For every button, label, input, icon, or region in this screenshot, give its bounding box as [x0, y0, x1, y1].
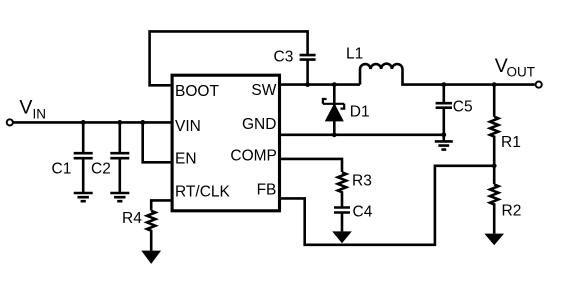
svg-text:C2: C2: [91, 160, 111, 177]
svg-text:RT/CLK: RT/CLK: [175, 183, 231, 200]
svg-text:COMP: COMP: [230, 148, 277, 165]
svg-text:C4: C4: [353, 204, 373, 221]
svg-text:L1: L1: [346, 46, 363, 63]
svg-text:OUT: OUT: [507, 65, 536, 80]
svg-text:C1: C1: [52, 160, 72, 177]
svg-text:R1: R1: [501, 134, 521, 151]
svg-text:BOOT: BOOT: [175, 83, 219, 100]
svg-text:C3: C3: [274, 49, 294, 66]
svg-text:VIN: VIN: [175, 118, 201, 135]
svg-text:GND: GND: [242, 116, 276, 133]
svg-text:R2: R2: [502, 203, 522, 220]
svg-text:FB: FB: [257, 181, 277, 198]
svg-text:V: V: [19, 97, 32, 119]
svg-text:R4: R4: [122, 210, 142, 227]
svg-text:C5: C5: [453, 99, 473, 116]
svg-text:EN: EN: [175, 150, 197, 167]
svg-text:IN: IN: [33, 106, 47, 121]
svg-text:D1: D1: [350, 104, 370, 121]
svg-text:SW: SW: [251, 82, 276, 99]
svg-text:R3: R3: [352, 173, 372, 190]
